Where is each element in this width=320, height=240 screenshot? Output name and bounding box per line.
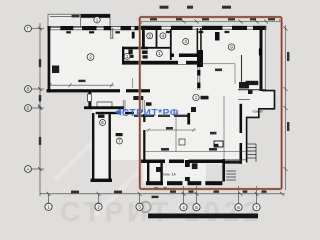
svg-text:В: В: [26, 87, 29, 92]
svg-text:5: 5: [195, 205, 198, 210]
svg-text:1: 1: [47, 205, 50, 210]
svg-text:СТРИТ 2022: СТРИТ 2022: [60, 196, 263, 225]
svg-text:осв. кл: осв. кл: [253, 110, 264, 114]
svg-text:7: 7: [255, 205, 258, 210]
svg-text:пом. 1А: пом. 1А: [163, 173, 176, 177]
svg-text:Б: Б: [26, 106, 29, 111]
svg-text:2: 2: [97, 205, 100, 210]
svg-text:6: 6: [237, 205, 240, 210]
svg-text:4: 4: [182, 205, 185, 210]
svg-text:СТРИТ*РФ: СТРИТ*РФ: [122, 108, 179, 119]
svg-text:3: 3: [138, 205, 141, 210]
